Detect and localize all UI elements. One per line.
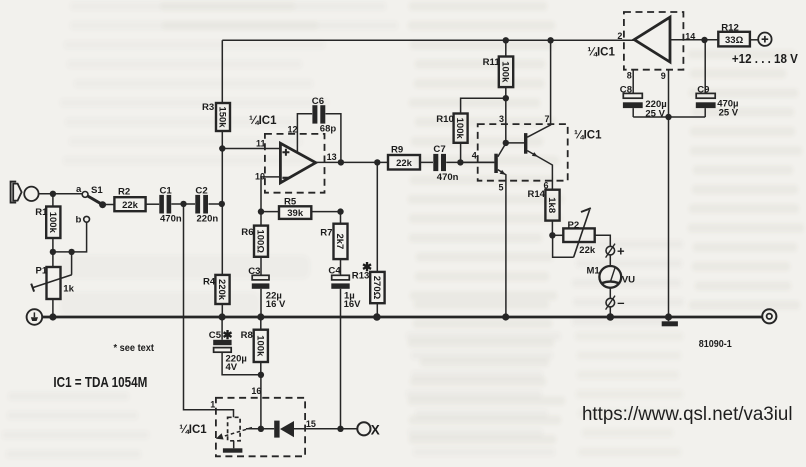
svg-text:22k: 22k [396, 158, 413, 169]
svg-text:2: 2 [617, 31, 622, 41]
svg-text:33Ω: 33Ω [725, 35, 744, 46]
svg-text:https://www.qsl.net/va3iul: https://www.qsl.net/va3iul [582, 404, 793, 425]
svg-text:81090-1: 81090-1 [699, 339, 732, 350]
svg-text:C1: C1 [160, 185, 173, 196]
svg-text:S1: S1 [91, 185, 103, 196]
svg-text:470n: 470n [160, 214, 182, 225]
svg-text:16: 16 [251, 386, 261, 396]
svg-text:C9: C9 [697, 84, 709, 95]
svg-text:–: – [617, 295, 624, 310]
svg-text:R14: R14 [528, 189, 546, 200]
svg-text:R12: R12 [721, 23, 739, 34]
svg-text:X: X [371, 423, 380, 438]
svg-text:R10: R10 [436, 114, 454, 125]
svg-text:68p: 68p [320, 124, 337, 135]
svg-text:7: 7 [545, 114, 550, 124]
svg-text:5: 5 [499, 183, 504, 193]
svg-text:10: 10 [255, 171, 265, 181]
svg-text:12: 12 [288, 124, 298, 134]
svg-text:R11: R11 [483, 57, 501, 68]
svg-text:IC1 = TDA 1054M: IC1 = TDA 1054M [53, 374, 147, 391]
svg-text:R7: R7 [320, 227, 332, 238]
svg-text:C4: C4 [328, 265, 341, 276]
svg-text:150k: 150k [217, 106, 228, 128]
svg-text:100k: 100k [254, 335, 265, 357]
svg-text:a: a [76, 184, 82, 195]
svg-text:16V: 16V [344, 299, 362, 310]
svg-text:+12 . . . 18 V: +12 . . . 18 V [732, 52, 799, 66]
svg-text:✱: ✱ [362, 260, 372, 274]
svg-text:M1: M1 [587, 266, 601, 277]
svg-text:P1: P1 [36, 266, 48, 277]
svg-text:22k: 22k [579, 245, 596, 256]
svg-text:+: + [617, 243, 625, 258]
svg-text:b: b [76, 215, 82, 226]
svg-text:¼IC1: ¼IC1 [249, 115, 277, 127]
svg-text:VU: VU [622, 275, 635, 286]
svg-text:470n: 470n [437, 172, 459, 183]
svg-text:100k: 100k [454, 118, 465, 140]
svg-text:25 V: 25 V [645, 108, 665, 119]
svg-text:8: 8 [627, 71, 632, 81]
svg-text:100k: 100k [500, 61, 511, 83]
svg-text:R8: R8 [241, 330, 253, 341]
svg-text:✱: ✱ [223, 328, 233, 342]
svg-text:R3: R3 [202, 102, 214, 113]
svg-text:2k7: 2k7 [334, 233, 345, 249]
svg-text:C5: C5 [209, 330, 222, 341]
svg-text:3: 3 [499, 114, 504, 124]
svg-text:39k: 39k [287, 208, 304, 219]
svg-text:270Ω: 270Ω [371, 276, 382, 300]
svg-text:C2: C2 [195, 185, 207, 196]
svg-text:9: 9 [661, 71, 666, 81]
svg-text:1: 1 [210, 400, 215, 410]
svg-text:6: 6 [544, 181, 549, 191]
svg-text:C7: C7 [433, 144, 445, 155]
svg-text:R5: R5 [284, 197, 297, 208]
svg-text:25 V: 25 V [719, 108, 739, 119]
svg-text:14: 14 [685, 32, 695, 42]
svg-text:¼IC1: ¼IC1 [587, 47, 615, 59]
svg-text:R1: R1 [35, 207, 48, 218]
svg-text:C6: C6 [312, 96, 324, 107]
svg-text:100Ω: 100Ω [255, 229, 266, 253]
svg-text:C3: C3 [248, 266, 260, 277]
svg-text:C8: C8 [620, 84, 633, 95]
svg-text:220k: 220k [216, 279, 227, 301]
svg-text:4: 4 [472, 151, 477, 161]
svg-text:22k: 22k [122, 200, 139, 211]
svg-text:R4: R4 [203, 277, 216, 288]
svg-text:¼IC1: ¼IC1 [179, 424, 207, 436]
svg-text:15: 15 [306, 419, 316, 429]
svg-text:¼IC1: ¼IC1 [574, 130, 602, 142]
svg-text:R6: R6 [241, 227, 253, 238]
svg-text:* see text: * see text [114, 343, 155, 354]
svg-text:4V: 4V [226, 362, 238, 373]
svg-text:16 V: 16 V [266, 299, 286, 310]
svg-text:1k8: 1k8 [546, 197, 557, 213]
svg-text:P2: P2 [568, 220, 580, 231]
svg-text:13: 13 [327, 152, 337, 162]
svg-text:11: 11 [256, 139, 266, 149]
svg-text:100k: 100k [47, 212, 58, 234]
svg-text:R9: R9 [391, 145, 403, 156]
svg-text:1k: 1k [63, 284, 74, 295]
svg-text:220n: 220n [197, 214, 219, 225]
svg-text:R2: R2 [118, 187, 130, 198]
